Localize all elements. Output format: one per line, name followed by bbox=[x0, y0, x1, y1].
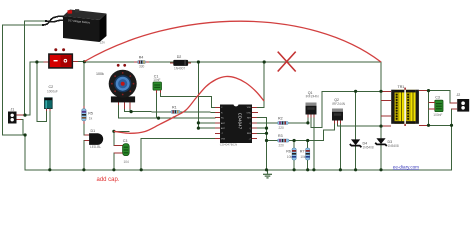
svg-text:R1: R1 bbox=[172, 105, 177, 109]
wire battery positive left drop bbox=[25, 21, 46, 115]
svg-text:104: 104 bbox=[124, 160, 130, 164]
svg-text:RES: RES bbox=[247, 133, 252, 135]
node J1 top bbox=[23, 114, 26, 117]
capacitor C1 bbox=[153, 74, 162, 93]
svg-text:1N4007: 1N4007 bbox=[174, 67, 185, 71]
svg-text:12v: 12v bbox=[100, 40, 106, 44]
wire IC pin7 to ground rail bbox=[141, 139, 215, 170]
resistor R1 bbox=[171, 105, 180, 119]
svg-text:IRFZ44N: IRFZ44N bbox=[332, 102, 346, 106]
LED D1 bbox=[85, 129, 104, 149]
transistor Q1 bbox=[306, 91, 320, 117]
node R3 tee bbox=[265, 139, 268, 142]
svg-text:R2: R2 bbox=[278, 116, 283, 120]
capacitor C3 left bbox=[114, 139, 129, 164]
node pin14 drop bbox=[263, 60, 266, 63]
wire D4 branch bbox=[355, 91, 357, 170]
resistor R7 bbox=[300, 148, 310, 160]
svg-text:OSC: OSC bbox=[247, 112, 252, 114]
node curve start bbox=[112, 130, 115, 133]
node C2 ground bbox=[48, 168, 51, 171]
wire Q2 drain line bbox=[337, 123, 381, 126]
wire J1 bottom pin to ground bbox=[17, 119, 24, 135]
svg-text:220: 220 bbox=[279, 126, 285, 130]
connector J2 bbox=[450, 93, 469, 112]
svg-text:VSS: VSS bbox=[221, 138, 226, 140]
wire secondary bottom line bbox=[424, 109, 452, 170]
svg-text:1k: 1k bbox=[89, 117, 93, 121]
connector J1 bbox=[8, 108, 25, 124]
svg-text:C3: C3 bbox=[435, 96, 440, 100]
wire pot wiper line to R1 bbox=[125, 109, 216, 113]
annotation red X bbox=[278, 52, 296, 72]
wire R6 to rail bbox=[293, 141, 295, 170]
svg-text:IRFZ44N: IRFZ44N bbox=[306, 95, 320, 99]
resistor R4 bbox=[134, 56, 149, 69]
node VDD drop bbox=[197, 60, 200, 63]
node Q1 gate bbox=[306, 121, 309, 124]
wire R5 D1 chain bbox=[84, 62, 89, 170]
node pot wiper bbox=[130, 110, 133, 113]
svg-text:J2: J2 bbox=[457, 93, 461, 97]
resistor R5 bbox=[82, 106, 93, 124]
ground bbox=[263, 170, 272, 178]
node D3 ground bbox=[379, 168, 382, 171]
node pin7 ground bbox=[140, 168, 143, 171]
transistor Q2 bbox=[332, 98, 346, 123]
wire Q2 gate leg bbox=[333, 123, 335, 130]
node battery negative bbox=[24, 133, 27, 136]
wire ground riser left bbox=[24, 135, 26, 170]
svg-text:R5: R5 bbox=[88, 112, 93, 116]
svg-text:LED-BL: LED-BL bbox=[90, 145, 101, 149]
node C1 leg bbox=[157, 117, 160, 120]
wire battery negative left drop bbox=[3, 25, 44, 135]
wire top rail bbox=[84, 61, 381, 63]
node C3L ground bbox=[112, 168, 115, 171]
annotation red arc curve 1 bbox=[84, 21, 381, 62]
svg-text:D2: D2 bbox=[177, 55, 182, 59]
svg-text:add cap.: add cap. bbox=[97, 177, 120, 183]
svg-text:10nF: 10nF bbox=[153, 78, 160, 82]
svg-text:R7: R7 bbox=[300, 150, 305, 154]
svg-text:330: 330 bbox=[139, 65, 145, 69]
battery leads bbox=[43, 16, 64, 25]
wire C2 positive branch bbox=[37, 62, 47, 121]
node J2 bottom bbox=[450, 124, 453, 127]
wire ground rail bbox=[25, 169, 451, 171]
svg-text:TR1: TR1 bbox=[398, 85, 405, 89]
node R7 top bbox=[306, 139, 309, 142]
svg-text:CD4047BCN: CD4047BCN bbox=[220, 143, 237, 147]
wire R2 line pin11 to Q1 gate bbox=[257, 122, 308, 124]
annotation red sine curve 2 bbox=[114, 76, 264, 133]
node R6 ground bbox=[293, 168, 296, 171]
diode D2 bbox=[170, 55, 191, 70]
wire VDD drop to pins 4 and 5 bbox=[198, 62, 215, 128]
wire top rail drop at transformer bbox=[380, 62, 382, 170]
node pin5 bbox=[197, 127, 200, 130]
svg-text:R3: R3 bbox=[278, 134, 283, 138]
svg-text:R6: R6 bbox=[286, 150, 291, 154]
svg-text:10k: 10k bbox=[300, 155, 306, 159]
node pin9 bbox=[265, 132, 268, 135]
svg-text:1000uF: 1000uF bbox=[47, 90, 58, 94]
capacitor C2 bbox=[45, 85, 58, 111]
node D4 top bbox=[354, 90, 357, 93]
wire Q1 gate leg bbox=[307, 117, 309, 123]
pin stub switch input bbox=[44, 61, 49, 63]
wire switch output node bbox=[78, 61, 85, 63]
node R6 top bbox=[293, 139, 296, 142]
wire secondary top line bbox=[424, 91, 450, 103]
svg-text:CD4047: CD4047 bbox=[238, 113, 243, 130]
node primary top bbox=[379, 90, 382, 93]
svg-text:ee-diary.com: ee-diary.com bbox=[393, 164, 419, 169]
wire Q1 drain line to transformer bbox=[322, 90, 386, 92]
node pin4 bbox=[197, 121, 200, 124]
svg-text:220: 220 bbox=[279, 144, 285, 148]
node IC ground bbox=[265, 168, 268, 171]
svg-text:C2: C2 bbox=[49, 85, 54, 89]
node R7 ground bbox=[306, 168, 309, 171]
wire pin12 bundle vertical to ground bbox=[257, 118, 267, 170]
node C3 top bbox=[427, 89, 430, 92]
IC U1 CD4047 bbox=[215, 105, 258, 147]
node Q2 source ground bbox=[339, 168, 342, 171]
wire C3 left cap connections bbox=[114, 131, 129, 170]
node C2 branch bbox=[35, 60, 38, 63]
wire C1 right leg to pin1 bbox=[161, 90, 216, 107]
wire C3 parallel branch bbox=[428, 91, 430, 126]
pin stub switch output bbox=[72, 61, 77, 63]
battery BT1 bbox=[63, 9, 107, 42]
resistor R2 bbox=[278, 116, 289, 129]
node primary bottom bbox=[379, 125, 382, 128]
svg-text:J1: J1 bbox=[11, 108, 15, 112]
zener diode D3 bbox=[375, 138, 399, 148]
svg-text:1N5408: 1N5408 bbox=[388, 144, 399, 148]
switch SW1 bbox=[49, 48, 72, 68]
zener diode D4 bbox=[350, 139, 374, 149]
potentiometer RV1 bbox=[96, 64, 137, 109]
svg-text:R4: R4 bbox=[139, 56, 144, 60]
svg-text:100nF: 100nF bbox=[433, 113, 442, 117]
wire VDD branch to pin14 bbox=[257, 62, 264, 107]
wire Q1 source to rail bbox=[313, 117, 315, 170]
svg-text:VDD: VDD bbox=[247, 107, 252, 109]
resistor R3 bbox=[278, 134, 290, 147]
node pin10 bbox=[265, 127, 268, 130]
node C3 bottom bbox=[427, 124, 430, 127]
wire pot leg1 to pin3 line bbox=[119, 104, 215, 118]
svg-text:10k: 10k bbox=[287, 155, 293, 159]
node D4 ground bbox=[354, 168, 357, 171]
svg-text:C3: C3 bbox=[123, 139, 128, 143]
wire Q2 source to rail bbox=[339, 123, 341, 170]
node switch output bbox=[83, 60, 86, 63]
node D1 ground bbox=[82, 168, 85, 171]
transformer TR1 bbox=[381, 85, 429, 126]
resistor R6 bbox=[286, 148, 296, 160]
wire R3 line to Q2 gate bbox=[267, 130, 335, 141]
svg-text:D1: D1 bbox=[91, 129, 96, 133]
wire C2 negative to rail bbox=[49, 109, 51, 170]
capacitor C3 right bbox=[429, 96, 444, 118]
wire J1 top stub junction to switch riser bbox=[25, 62, 44, 115]
node Q1 source ground bbox=[312, 168, 315, 171]
wire C1 left leg down bbox=[156, 90, 158, 118]
wire R7 to rail bbox=[307, 141, 309, 170]
svg-text:100k: 100k bbox=[96, 72, 104, 76]
svg-text:1N5408: 1N5408 bbox=[363, 145, 374, 149]
wire Q1 drain riser bbox=[311, 91, 322, 127]
